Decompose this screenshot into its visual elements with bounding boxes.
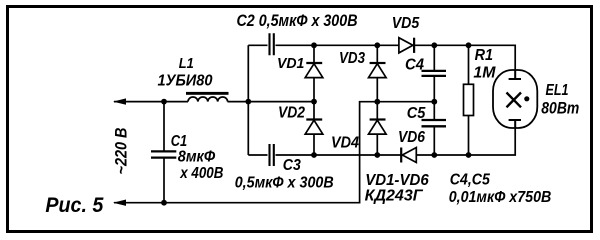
arrow input top [113, 98, 126, 104]
node C1 bottom [161, 200, 167, 206]
node VD3-VD4 mid [374, 99, 380, 105]
svg-text:C3: C3 [283, 157, 301, 174]
diode VD3 [369, 45, 387, 101]
svg-text:C2 0,5мкФ x 300В: C2 0,5мкФ x 300В [237, 11, 358, 30]
svg-text:EL1: EL1 [546, 82, 569, 99]
svg-text:VD1: VD1 [277, 55, 304, 72]
svg-text:L1: L1 [179, 55, 194, 72]
inductor L1 [186, 92, 229, 102]
wire bottom input [114, 155, 360, 203]
node C5 bottom [431, 152, 437, 158]
capacitor C4 [422, 45, 447, 101]
svg-text:VD5: VD5 [392, 15, 420, 32]
wire bridge top rail [248, 45, 515, 78]
capacitor C1 [151, 102, 176, 203]
svg-text:C4,C5: C4,C5 [450, 172, 490, 189]
svg-text:C4: C4 [405, 57, 424, 74]
node VD3 top [374, 42, 380, 48]
svg-text:VD3: VD3 [339, 50, 365, 67]
svg-text:~220 В: ~220 В [112, 128, 131, 175]
wire left branch vertical (C2/C3 leg) [247, 45, 249, 155]
svg-text:VD4: VD4 [331, 135, 359, 152]
node C4-C5 mid [431, 99, 437, 105]
diode VD1 [305, 45, 323, 101]
svg-text:x 400В: x 400В [179, 165, 223, 182]
node VD4 bottom [374, 152, 380, 158]
svg-text:80Вт: 80Вт [541, 99, 579, 118]
svg-text:0,01мкФ х750В: 0,01мкФ х750В [449, 189, 552, 206]
arrow input bottom [113, 200, 126, 206]
svg-text:1M: 1M [473, 65, 496, 82]
svg-text:VD6: VD6 [398, 129, 425, 146]
svg-text:VD1-VD6: VD1-VD6 [365, 172, 429, 189]
diode VD5 [399, 38, 414, 53]
node R1 bottom [466, 152, 472, 158]
svg-text:8мкФ: 8мкФ [178, 149, 216, 166]
node R1 top [466, 42, 472, 48]
node C4 top [431, 42, 437, 48]
node VD1-VD2 mid [311, 99, 317, 105]
node VD1 top [311, 42, 317, 48]
diode VD4 [369, 102, 387, 155]
svg-text:0,5мкФ x 300В: 0,5мкФ x 300В [235, 174, 334, 191]
svg-text:КД243Г: КД243Г [365, 187, 424, 204]
lamp EL1 [493, 70, 537, 128]
node VD2 bottom [311, 152, 317, 158]
svg-text:C5: C5 [407, 105, 427, 122]
capacitor C2 [270, 33, 274, 55]
svg-text:1УБИ80: 1УБИ80 [158, 72, 213, 89]
svg-text:C1: C1 [171, 133, 187, 150]
node left branch mid [245, 99, 251, 105]
resistor R1 [464, 45, 474, 155]
svg-text:VD2: VD2 [278, 105, 305, 122]
diode VD2 [305, 102, 323, 155]
svg-text:R1: R1 [475, 47, 493, 64]
capacitor C3 [270, 144, 274, 166]
wire bypass vertical to C4-C5 midpoint [360, 102, 435, 155]
capacitor C5 [422, 102, 447, 155]
node L1-C1 top [161, 99, 167, 105]
wire bridge bottom rail [248, 120, 515, 156]
svg-text:Рис. 5: Рис. 5 [45, 194, 103, 217]
diode VD6 [401, 148, 416, 163]
wire top input rail [114, 101, 314, 103]
